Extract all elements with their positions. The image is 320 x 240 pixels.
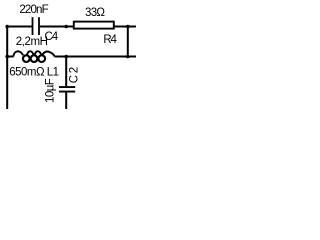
- resistor R4: [74, 22, 114, 29]
- svg-text:10µF: 10µF: [45, 78, 57, 103]
- svg-text:33Ω: 33Ω: [85, 7, 105, 19]
- svg-text:R4: R4: [103, 34, 117, 46]
- node bottom-right: [126, 55, 130, 59]
- wire R4 right to edge: [114, 26, 136, 28]
- wire C2 top: [65, 57, 67, 87]
- svg-text:220nF: 220nF: [19, 4, 48, 16]
- node top-right: [126, 25, 130, 29]
- svg-text:650mΩ L1: 650mΩ L1: [9, 66, 58, 78]
- capacitor C2: [59, 86, 75, 92]
- wire C2 bottom: [65, 93, 67, 110]
- node dots: [5, 25, 129, 59]
- wire C4 to R4: [40, 26, 74, 28]
- wire bottom left to coil: [7, 56, 14, 58]
- node top-left: [5, 25, 9, 29]
- wire right vertical: [127, 27, 129, 57]
- node top-middle: [64, 25, 68, 29]
- node bottom-middle: [64, 55, 68, 59]
- svg-text:2,2mH: 2,2mH: [16, 36, 48, 48]
- wire left vertical: [6, 27, 8, 110]
- wire top left (node A to C4): [7, 26, 32, 28]
- wire coil to right edge: [55, 56, 136, 58]
- node bottom-left: [5, 55, 9, 59]
- capacitor C4: [32, 17, 40, 35]
- inductor L1: [13, 51, 55, 62]
- svg-text:C2: C2: [69, 65, 81, 83]
